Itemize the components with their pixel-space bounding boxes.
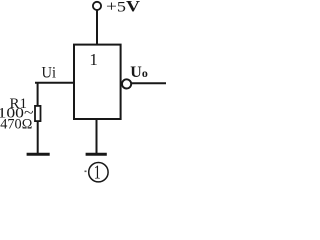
output terminal Uo (122, 79, 131, 88)
wire: box bottom to ground (96, 119, 98, 153)
svg-text:+5V: +5V (106, 0, 141, 16)
ground (left) (27, 153, 50, 156)
power terminal +5V (93, 2, 101, 10)
wire: input node down to R1 (37, 83, 39, 106)
svg-text:Uo: Uo (130, 64, 148, 81)
wire: output to right edge (131, 82, 166, 84)
figure number 1 (circled) (89, 163, 108, 182)
svg-text:1: 1 (94, 162, 101, 184)
wire: +5V terminal to box top (96, 10, 98, 45)
gate U1 (IEC box labeled 1) (74, 45, 121, 119)
wire: R1 to ground (37, 122, 39, 154)
ink speck left of figure number (85, 171, 87, 173)
resistor R1 body (35, 106, 41, 121)
svg-text:1: 1 (89, 50, 98, 69)
svg-text:Ui: Ui (42, 64, 57, 81)
wire: input Ui to box (35, 82, 74, 84)
ground (right) (86, 153, 107, 156)
svg-text:470Ω: 470Ω (0, 116, 32, 132)
